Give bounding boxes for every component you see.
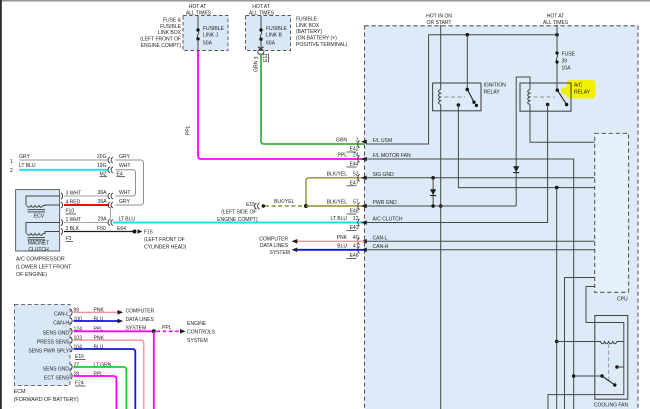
svg-text:F/L USM: F/L USM bbox=[373, 138, 393, 144]
solenoid ECV bbox=[26, 196, 60, 219]
pin 28 ECT SENS bbox=[44, 371, 116, 409]
fuse 39 10A bbox=[555, 51, 575, 71]
switch A/C relay bbox=[556, 88, 569, 106]
wire SIG GND row inside to CPU bbox=[366, 177, 595, 179]
svg-text:OR START: OR START bbox=[427, 20, 452, 26]
node HOT IN ON OR START bbox=[426, 14, 452, 27]
junction diode jumper / PWR GND bbox=[431, 204, 435, 208]
svg-text:E11: E11 bbox=[263, 53, 269, 62]
svg-text:HOT AT: HOT AT bbox=[547, 14, 565, 20]
svg-text:CAN-H: CAN-H bbox=[53, 320, 69, 326]
svg-text:(LOWER LEFT FRONT: (LOWER LEFT FRONT bbox=[16, 264, 72, 270]
junction coil return / PWR GND bbox=[439, 204, 443, 208]
wire ignition relay output to CPU bbox=[458, 105, 594, 188]
junction cooling fan switch contact bbox=[572, 374, 576, 378]
wire BLK/YEL branch to pin 52 bbox=[306, 178, 365, 204]
fusible link J 50A bbox=[196, 16, 224, 51]
junction bus / ignition switch bbox=[466, 33, 470, 37]
node ENGINE CONTROLS SYSTEM bbox=[180, 321, 216, 344]
junction cooling fan coil feed bbox=[555, 340, 559, 344]
svg-text:39: 39 bbox=[562, 59, 568, 65]
coil ignition relay bbox=[438, 90, 440, 105]
svg-text:35A: 35A bbox=[98, 199, 108, 205]
svg-text:ENGINE: ENGINE bbox=[187, 321, 207, 327]
svg-text:20G: 20G bbox=[97, 154, 107, 160]
svg-text:GRY: GRY bbox=[119, 154, 130, 160]
svg-text:WHT: WHT bbox=[119, 163, 130, 169]
wire CPU to vertical bus left bbox=[565, 278, 595, 409]
ECM box (forward of battery) bbox=[14, 305, 79, 403]
pin 41 CAN-H E46 bbox=[337, 244, 389, 260]
svg-text:BLK/YEL: BLK/YEL bbox=[327, 200, 348, 206]
USM control module box (dashed) bbox=[365, 26, 639, 409]
wire to cooling fan switch contact bbox=[574, 375, 602, 377]
svg-text:PPL: PPL bbox=[338, 153, 348, 159]
svg-text:LINK J: LINK J bbox=[203, 33, 218, 39]
actuator dashes ignition relay bbox=[445, 96, 466, 98]
pin 100 CAN-H bbox=[53, 316, 117, 326]
svg-text:BLU: BLU bbox=[337, 244, 347, 250]
relay U1 ignition relay box bbox=[433, 83, 507, 111]
svg-text:FUSE &: FUSE & bbox=[163, 18, 182, 24]
wire A/C relay output to pin 12 bbox=[366, 105, 548, 223]
wire PWR GND row inside bbox=[366, 205, 516, 207]
svg-text:PWR GND: PWR GND bbox=[373, 200, 398, 206]
svg-text:3: 3 bbox=[254, 56, 260, 59]
coil A/C relay bbox=[528, 90, 530, 105]
svg-text:FUSE: FUSE bbox=[562, 52, 576, 58]
svg-text:PPL: PPL bbox=[185, 125, 191, 135]
junction SIG GND / diode jumper bbox=[431, 176, 435, 180]
svg-text:ENGINE COMPT): ENGINE COMPT) bbox=[217, 217, 258, 223]
junction PPL sens gnd bbox=[152, 329, 156, 333]
wire fuse 39 to A/C relay switch bbox=[556, 64, 558, 91]
svg-text:(LEFT FRONT OF: (LEFT FRONT OF bbox=[144, 237, 185, 243]
wire CPU to cooling fan coil right side bbox=[548, 287, 624, 409]
fuse &amp; fusible link box (left front of engine compt) bbox=[140, 16, 228, 51]
junction A/C relay output bbox=[546, 103, 550, 107]
ground F16 (left front of cylinder head) bbox=[133, 229, 187, 250]
pin 99 CAN-L bbox=[54, 308, 118, 318]
wire pin 24 to cooling fan feed bbox=[366, 159, 574, 409]
svg-text:WHT: WHT bbox=[119, 190, 130, 196]
diode jumper SIG-PWR bbox=[430, 178, 436, 206]
pin 12 A/C CLUTCH E43 bbox=[331, 216, 403, 231]
svg-text:SENS PWR SPLY: SENS PWR SPLY bbox=[28, 348, 69, 354]
svg-text:IGNITION: IGNITION bbox=[484, 83, 507, 89]
highlight A/C RELAY bbox=[561, 80, 596, 99]
wire GRN from fusible link B to pin 2 bbox=[253, 54, 364, 145]
svg-text:GRY: GRY bbox=[119, 199, 130, 205]
pin 4 RED bbox=[61, 199, 130, 215]
switch blade cooling fan bbox=[600, 374, 616, 386]
svg-text:PRESS SENS: PRESS SENS bbox=[37, 340, 70, 346]
wire from junction to cooling fan coil bbox=[556, 188, 558, 409]
svg-text:CLUTCH: CLUTCH bbox=[28, 247, 49, 253]
pin 27 SENS GND bbox=[43, 362, 127, 409]
wire loop WHT row2 to 36A bbox=[116, 170, 136, 196]
connector E15 (left side of engine compt) bbox=[217, 202, 265, 223]
svg-text:GRN: GRN bbox=[253, 60, 259, 72]
wire HOT AT ALL TIMES feed bbox=[556, 25, 558, 52]
svg-text:F/L MOTOR FAN: F/L MOTOR FAN bbox=[373, 153, 411, 159]
fusible link box (battery) bbox=[246, 16, 348, 51]
svg-text:LINK BOX: LINK BOX bbox=[158, 30, 182, 36]
wire PNK CAN-L to computer data lines bbox=[297, 240, 364, 242]
svg-text:1: 1 bbox=[10, 159, 13, 165]
contact pivot cooling fan bbox=[615, 365, 624, 369]
pin 2 BLK wire to ground F16 bbox=[61, 226, 133, 242]
actuator dashes A/C relay bbox=[534, 96, 555, 98]
wire CAN-L inside bbox=[366, 240, 595, 242]
svg-text:BLK/YEL: BLK/YEL bbox=[274, 199, 295, 205]
pin 124 SENS GND bbox=[43, 327, 154, 337]
cooling fan relay box bbox=[594, 316, 629, 409]
svg-text:SYSTEM: SYSTEM bbox=[269, 250, 290, 256]
node HOT AT ALL TIMES (fusible link J) bbox=[186, 4, 212, 16]
wire LT BLU pin 2 (compressor connector) bbox=[10, 163, 108, 174]
wire HOT IN ON feed to ignition relay coil bbox=[440, 25, 442, 90]
svg-text:(BATTERY): (BATTERY) bbox=[296, 29, 322, 35]
svg-text:CPU: CPU bbox=[617, 297, 628, 303]
svg-text:SIG GND: SIG GND bbox=[373, 172, 395, 178]
svg-text:GRY: GRY bbox=[19, 154, 30, 160]
svg-text:FUSIBLE: FUSIBLE bbox=[160, 24, 182, 30]
svg-text:SYSTEM: SYSTEM bbox=[187, 338, 208, 344]
wire pin2 to supply bus bbox=[366, 35, 557, 144]
svg-text:PPL: PPL bbox=[162, 325, 172, 331]
svg-text:DATA LINES: DATA LINES bbox=[126, 317, 155, 323]
pin 3 WHT bbox=[61, 190, 130, 199]
svg-text:COMPUTER: COMPUTER bbox=[259, 236, 288, 242]
junction on output wire bbox=[555, 186, 559, 190]
coil cooling fan relay bbox=[557, 342, 624, 344]
svg-text:HOT AT: HOT AT bbox=[252, 4, 270, 10]
svg-text:10A: 10A bbox=[562, 66, 572, 72]
wire PPL from fusible link J to pin 24 bbox=[185, 51, 364, 160]
svg-text:ECT SENS: ECT SENS bbox=[44, 375, 70, 381]
svg-text:MAGNET: MAGNET bbox=[28, 241, 50, 247]
svg-text:DATA LINES: DATA LINES bbox=[260, 243, 289, 249]
svg-text:SENS GND: SENS GND bbox=[43, 331, 70, 337]
svg-text:ECM: ECM bbox=[14, 389, 26, 395]
coil MAGNET CLUTCH bbox=[26, 223, 60, 254]
connector M2 / E4 bbox=[100, 154, 131, 177]
svg-text:COMPUTER: COMPUTER bbox=[126, 308, 155, 314]
wire CAN-H inside bbox=[366, 249, 595, 251]
svg-text:OF ENGINE): OF ENGINE) bbox=[16, 272, 47, 278]
pin 52 SIG GND E47 bbox=[327, 172, 394, 187]
wire BLK/YEL dashed from E15 bbox=[265, 199, 304, 206]
svg-text:A/C CLUTCH: A/C CLUTCH bbox=[373, 217, 403, 223]
pin 57 PWR GND E48 bbox=[327, 200, 397, 215]
svg-text:ENGINE COMPT): ENGINE COMPT) bbox=[141, 43, 182, 49]
svg-text:A/C: A/C bbox=[574, 83, 583, 89]
svg-text:(LEFT FRONT OF: (LEFT FRONT OF bbox=[140, 37, 181, 43]
svg-text:LINK BOX: LINK BOX bbox=[296, 23, 320, 29]
svg-text:RELAY: RELAY bbox=[484, 90, 501, 96]
wire BLK/YEL to pin 57 bbox=[306, 205, 365, 207]
wire BLU CAN-H to computer data lines bbox=[297, 249, 364, 251]
wire PPL dashed to engine controls bbox=[157, 325, 180, 331]
wire GRY pin 1 (compressor connector) bbox=[10, 154, 108, 165]
node COMPUTER DATA LINES SYSTEM (right) bbox=[259, 236, 297, 255]
wire ignition coil return (PWR GND vertical) bbox=[440, 105, 442, 409]
svg-text:FUSIBLE: FUSIBLE bbox=[266, 26, 288, 32]
svg-text:36A: 36A bbox=[98, 190, 108, 196]
svg-text:50A: 50A bbox=[203, 41, 213, 47]
svg-text:LT BLU: LT BLU bbox=[19, 163, 36, 169]
svg-text:(LEFT SIDE OF: (LEFT SIDE OF bbox=[221, 209, 256, 215]
pin 24 F/L MOTOR FAN E44 bbox=[338, 153, 411, 168]
svg-text:CAN-L: CAN-L bbox=[54, 312, 69, 318]
svg-text:(FORWARD OF BATTERY): (FORWARD OF BATTERY) bbox=[14, 397, 79, 403]
connector E11 pin 3 bbox=[254, 47, 269, 63]
junction ignition relay output bbox=[457, 103, 461, 107]
svg-text:F50: F50 bbox=[97, 226, 106, 232]
svg-text:2: 2 bbox=[10, 168, 13, 174]
node HOT AT ALL TIMES (right) bbox=[543, 14, 569, 27]
diode D2 on A/C coil branch bbox=[513, 166, 519, 172]
svg-text:BLK/YEL: BLK/YEL bbox=[327, 172, 348, 178]
svg-text:HOT IN ON: HOT IN ON bbox=[426, 14, 452, 20]
svg-text:CONTROLS: CONTROLS bbox=[187, 329, 216, 335]
svg-text:POSITIVE TERMINAL): POSITIVE TERMINAL) bbox=[296, 42, 348, 48]
actuator dashes cooling fan relay bbox=[608, 344, 610, 381]
A/C compressor box bbox=[16, 190, 73, 278]
svg-text:ECV: ECV bbox=[34, 213, 45, 219]
pin 104 SENS PWR SPLY bbox=[28, 344, 135, 409]
svg-text:HOT AT: HOT AT bbox=[189, 4, 207, 10]
svg-text:CAN-H: CAN-H bbox=[373, 244, 389, 250]
pin 103 PRESS SENS bbox=[37, 335, 144, 409]
junction dot BLK/YEL bbox=[304, 204, 308, 208]
svg-text:F16: F16 bbox=[144, 229, 153, 235]
wire loop GRY row1 to 35A bbox=[116, 160, 144, 205]
svg-text:(ON BATTERY (+): (ON BATTERY (+) bbox=[296, 36, 337, 42]
svg-text:A/C COMPRESSOR: A/C COMPRESSOR bbox=[16, 257, 65, 263]
svg-text:PNK: PNK bbox=[337, 235, 348, 241]
pin 2 F/L USM E42 bbox=[336, 138, 392, 153]
fusible link B 60A bbox=[259, 16, 287, 51]
svg-text:60A: 60A bbox=[266, 41, 276, 47]
svg-text:LINK B: LINK B bbox=[266, 33, 282, 39]
pin 1 WHT / LT BLU wire to pin 12 bbox=[61, 217, 365, 226]
svg-text:29A: 29A bbox=[98, 217, 108, 223]
node HOT AT ALL TIMES (fusible link B) bbox=[249, 4, 275, 16]
wire A/C coil bottom to CPU bbox=[530, 105, 595, 143]
junction bus / hot at all times bbox=[555, 33, 559, 37]
wire PPL junction down bbox=[153, 331, 155, 409]
svg-text:E15: E15 bbox=[246, 202, 255, 208]
svg-text:RELAY: RELAY bbox=[574, 90, 591, 96]
svg-text:FUSIBLE: FUSIBLE bbox=[203, 26, 225, 32]
wire A/C coil top hook to diode branch bbox=[516, 77, 530, 206]
pin 40 CAN-L bbox=[337, 235, 388, 245]
svg-text:GRN: GRN bbox=[336, 138, 348, 144]
node COMPUTER DATA LINES SYSTEM (left) bbox=[118, 308, 155, 331]
connector column line F50 bbox=[110, 207, 112, 221]
svg-text:FUSIBLE: FUSIBLE bbox=[296, 17, 318, 23]
switch ignition relay bbox=[466, 88, 479, 107]
svg-text:CAN-L: CAN-L bbox=[373, 236, 388, 242]
svg-text:SENS GND: SENS GND bbox=[43, 366, 70, 372]
wire ignition switch pivot from bus bbox=[466, 35, 468, 90]
svg-text:19G: 19G bbox=[97, 163, 107, 169]
relay U2 A/C relay box bbox=[520, 83, 591, 112]
svg-text:COOLING FAN: COOLING FAN bbox=[594, 403, 629, 409]
svg-text:LT BLU: LT BLU bbox=[331, 216, 348, 222]
svg-text:ALL TIMES: ALL TIMES bbox=[543, 20, 569, 26]
CPU box bbox=[595, 133, 629, 302]
svg-text:CYLINDER HEAD): CYLINDER HEAD) bbox=[144, 244, 187, 250]
